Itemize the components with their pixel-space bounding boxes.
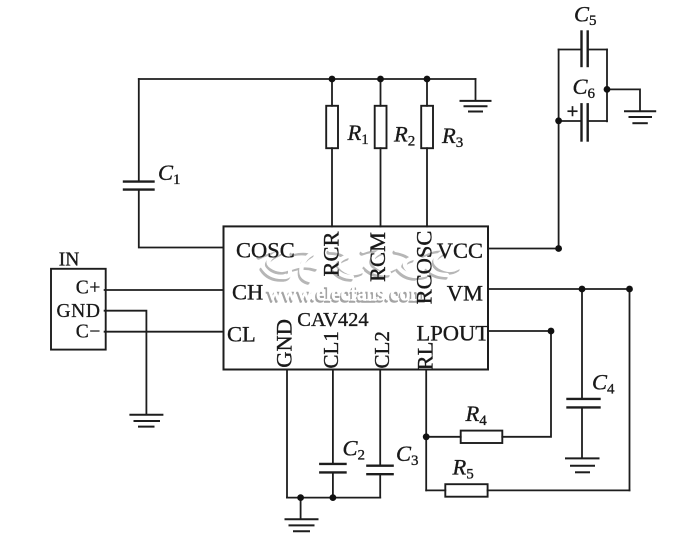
- wire ground stub: [300, 498, 302, 519]
- wire C+ to CH: [105, 289, 224, 291]
- capacitor C5: [582, 32, 588, 67]
- watermark chinese chars: [259, 248, 460, 282]
- svg-text:C2: C2: [343, 436, 366, 464]
- svg-text:R4: R4: [465, 401, 488, 429]
- wire C6 node to right ground: [607, 89, 640, 110]
- node VM right: [626, 286, 633, 293]
- node C2 bottom: [330, 494, 337, 501]
- svg-text:VCC: VCC: [437, 238, 483, 263]
- resistor R4: [461, 431, 503, 443]
- svg-text:CL2: CL2: [370, 331, 394, 368]
- svg-text:GND: GND: [272, 319, 297, 368]
- wire R4 left to RL line: [426, 436, 461, 438]
- svg-text:IN: IN: [59, 250, 80, 271]
- svg-text:VM: VM: [447, 281, 483, 306]
- resistor R2: [380, 79, 382, 106]
- wire GND pin down: [286, 370, 288, 498]
- wire to top ground: [475, 79, 477, 101]
- svg-text:RCM: RCM: [365, 232, 390, 282]
- svg-text:C6: C6: [573, 74, 596, 102]
- svg-text:C5: C5: [574, 2, 597, 30]
- svg-text:RCOSC: RCOSC: [412, 231, 437, 305]
- node R1 top: [329, 76, 336, 83]
- svg-text:C3: C3: [396, 441, 419, 469]
- wire VM bus: [488, 288, 630, 290]
- svg-text:R1: R1: [347, 120, 369, 148]
- watermark www.elecfans.com: [266, 283, 426, 307]
- resistor R5: [445, 484, 487, 497]
- node bottom ground: [297, 494, 304, 501]
- resistor R1: [331, 79, 333, 106]
- svg-text:C−: C−: [76, 321, 101, 342]
- node VM-C4: [579, 286, 586, 293]
- svg-text:R3: R3: [441, 123, 463, 151]
- node VCC: [555, 245, 562, 252]
- wire C5 loop right vertical: [606, 50, 608, 122]
- svg-text:www.elecfans.com: www.elecfans.com: [268, 283, 426, 305]
- node LPOUT: [548, 328, 555, 335]
- svg-text:CH: CH: [232, 280, 263, 305]
- svg-text:C+: C+: [76, 278, 101, 299]
- wire C3 bottom: [379, 474, 381, 497]
- wire C- to CL: [105, 331, 224, 333]
- wire C4 bottom lead: [581, 407, 583, 458]
- svg-text:RCR: RCR: [319, 231, 344, 276]
- ground (right of C6): [625, 111, 655, 123]
- resistor R3: [426, 79, 428, 106]
- capacitor C4: [568, 399, 600, 408]
- wire RL pin down: [425, 370, 427, 491]
- wire CL1 down to C2: [332, 370, 334, 464]
- ground (below C4): [566, 458, 599, 472]
- svg-text:CL1: CL1: [319, 331, 343, 368]
- svg-text:C1: C1: [158, 160, 181, 188]
- wire C4 top lead: [581, 289, 583, 399]
- wire GND of IN box down: [105, 311, 147, 415]
- svg-text:C4: C4: [592, 370, 615, 398]
- wire C6 left: [559, 120, 581, 122]
- capacitor C1: [124, 182, 154, 190]
- wire bottom bus: [287, 497, 380, 499]
- capacitor C3: [367, 466, 392, 475]
- node C6 right: [604, 86, 611, 93]
- wire RL to R5: [426, 489, 445, 491]
- wire C5 top right: [589, 49, 608, 51]
- wire LPOUT down to R4: [502, 331, 551, 437]
- wire VCC to C5/C6: [488, 248, 559, 250]
- wire C2 bottom: [332, 472, 334, 497]
- node C6 left: [555, 117, 562, 124]
- op-amp U1 CAV424 IC body: [224, 226, 489, 369]
- svg-text:RL: RL: [413, 342, 438, 371]
- svg-text:GND: GND: [56, 301, 100, 322]
- svg-text:CAV424: CAV424: [297, 309, 368, 331]
- node R2 top: [377, 76, 384, 83]
- wire C5 top left: [559, 49, 581, 51]
- wire C6 right: [589, 120, 608, 122]
- node R3 top: [424, 76, 431, 83]
- wire CL2 down to C3: [379, 370, 381, 466]
- ground (below IN box): [130, 415, 162, 427]
- labels: [59, 231, 490, 371]
- wire top bus C1 to R1 R2 R3 to ground: [139, 78, 476, 80]
- wire R5 right to VM vertical: [488, 489, 630, 491]
- plus sign of C6: [568, 107, 576, 115]
- wire C5 loop left vertical: [558, 50, 560, 249]
- svg-text:COSC: COSC: [236, 238, 295, 263]
- capacitor C2: [320, 464, 345, 473]
- wire LPOUT: [488, 330, 551, 332]
- ground (bottom center): [286, 519, 318, 531]
- svg-text:CL: CL: [227, 322, 256, 347]
- wire C1 bottom lead to COSC: [139, 190, 224, 248]
- capacitor C6: [582, 104, 588, 140]
- IN box: [51, 269, 106, 350]
- wire C1 top lead: [138, 79, 140, 181]
- wire VM right vertical: [629, 289, 631, 490]
- svg-text:R2: R2: [393, 122, 415, 150]
- node RL-R4: [423, 433, 430, 440]
- svg-text:R5: R5: [452, 455, 474, 483]
- ground (top right of bus): [461, 101, 491, 112]
